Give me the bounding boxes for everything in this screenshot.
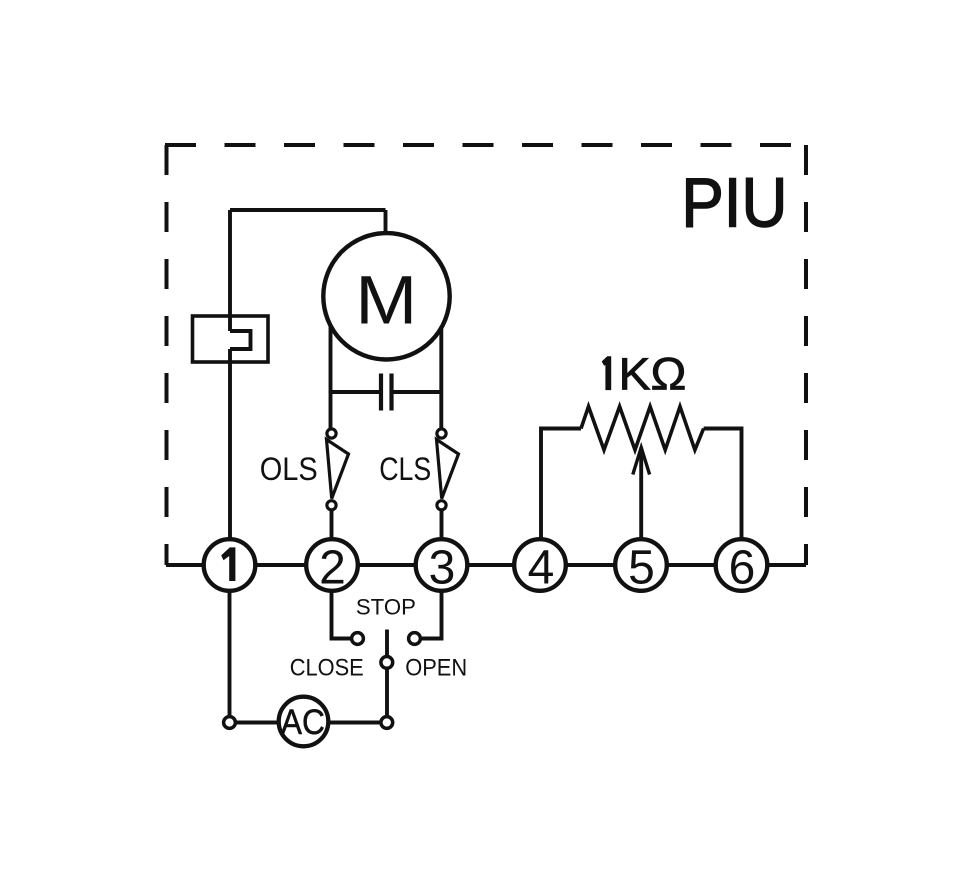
svg-text:5: 5 bbox=[628, 542, 655, 595]
svg-text:6: 6 bbox=[729, 542, 756, 595]
svg-text:KΩ: KΩ bbox=[619, 349, 687, 400]
svg-text:4: 4 bbox=[528, 542, 555, 595]
svg-text:CLS: CLS bbox=[379, 451, 431, 487]
svg-text:M: M bbox=[355, 262, 417, 339]
svg-text:3: 3 bbox=[429, 542, 456, 595]
svg-text:2: 2 bbox=[319, 542, 346, 595]
svg-text:PIU: PIU bbox=[681, 164, 787, 242]
svg-text:CLOSE: CLOSE bbox=[290, 654, 364, 681]
svg-text:OLS: OLS bbox=[260, 451, 318, 487]
svg-text:STOP: STOP bbox=[356, 595, 416, 620]
svg-text:OPEN: OPEN bbox=[405, 654, 467, 681]
svg-text:AC: AC bbox=[281, 703, 325, 742]
